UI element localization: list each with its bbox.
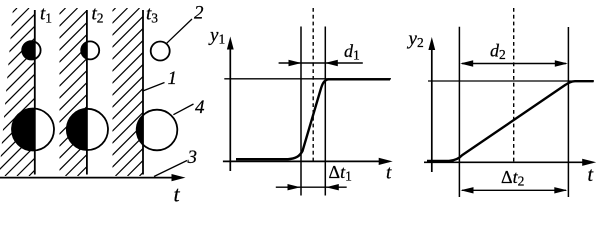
- screen edge line 3: [142, 10, 144, 175]
- svg-text:t3: t3: [146, 3, 158, 25]
- screen strip 1 hatched band: [0, 8, 209, 176]
- left t axis: [0, 177, 181, 179]
- leader line to 2: [167, 19, 192, 43]
- level line y2: [428, 80, 594, 82]
- boundary line left (solid): [458, 27, 460, 197]
- svg-text:y1: y1: [208, 25, 225, 47]
- svg-text:3: 3: [187, 147, 198, 168]
- svg-text:4: 4: [195, 97, 205, 118]
- svg-text:t: t: [386, 163, 392, 184]
- screen edge line 2: [86, 10, 88, 175]
- big circle at t3 (mostly white, label 4): [137, 110, 178, 151]
- svg-text:Δt2: Δt2: [501, 167, 524, 189]
- small circle at t1 (mostly black): [22, 41, 40, 59]
- curve y1(t): step response: [236, 79, 390, 159]
- svg-text:t: t: [588, 164, 594, 186]
- svg-text:d2: d2: [490, 41, 506, 63]
- right t axis: [424, 161, 593, 163]
- curve y2(t): ramp response: [427, 81, 594, 161]
- svg-text:2: 2: [194, 3, 204, 24]
- screen strip 2 hatched band: [0, 8, 258, 176]
- y2 axis: [431, 44, 433, 172]
- svg-text:d1: d1: [344, 41, 360, 63]
- d2 dimension double arrow: [462, 63, 566, 65]
- svg-text:t1: t1: [40, 3, 52, 25]
- screen strip 3 hatched band: [0, 8, 320, 176]
- svg-text:Δt1: Δt1: [329, 162, 352, 184]
- boundary line left (solid): [300, 27, 302, 196]
- leader line to 4: [173, 104, 193, 115]
- middle t axis: [223, 160, 389, 162]
- boundary line right (solid): [567, 27, 569, 197]
- boundary line middle (dashed): [312, 8, 314, 161]
- screen edge line 1: [34, 10, 36, 175]
- svg-text:y2: y2: [407, 29, 424, 51]
- svg-text:t: t: [174, 182, 181, 207]
- leader line to 3: [154, 161, 187, 177]
- big circle at t1 (mostly black): [12, 109, 54, 151]
- level line y1: [224, 78, 391, 80]
- boundary line right (solid): [324, 27, 326, 196]
- svg-text:1: 1: [168, 68, 178, 89]
- leader line to 1: [142, 83, 164, 92]
- boundary line middle (dashed): [513, 8, 515, 162]
- svg-text:t2: t2: [92, 3, 104, 25]
- small circle at t3 (white, label 2): [151, 42, 170, 61]
- d1 dimension line with inward arrows: [279, 62, 363, 64]
- dt2 dimension double arrow: [462, 189, 566, 191]
- y1 axis: [229, 44, 231, 171]
- big circle at t2 (half black): [67, 109, 108, 150]
- small circle at t2 (half black): [81, 41, 99, 59]
- dt1 dimension line with inward arrows: [276, 186, 347, 188]
